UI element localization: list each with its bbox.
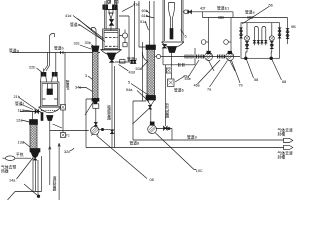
svg-text:61b: 61b [142, 14, 148, 18]
svg-text:22b: 22b [29, 66, 35, 70]
svg-text:管道9: 管道9 [187, 135, 197, 140]
svg-text:68: 68 [282, 80, 286, 84]
svg-text:升气管路: 升气管路 [165, 102, 170, 118]
svg-text:封槽: 封槽 [278, 132, 286, 137]
svg-text:32c: 32c [64, 150, 70, 154]
svg-text:管道a: 管道a [70, 22, 81, 27]
svg-text:58: 58 [254, 78, 258, 82]
svg-text:管道g: 管道g [9, 48, 19, 53]
svg-text:7c: 7c [66, 134, 70, 138]
svg-text:60b: 60b [142, 9, 148, 13]
svg-text:34c: 34c [75, 86, 81, 90]
svg-text:5: 5 [128, 81, 130, 85]
svg-text:3: 3 [85, 74, 87, 78]
svg-text:12a: 12a [16, 118, 23, 122]
svg-text:41e: 41e [133, 3, 139, 7]
svg-text:51a: 51a [140, 20, 147, 24]
svg-text:33c: 33c [74, 41, 80, 45]
svg-text:45c: 45c [183, 74, 189, 78]
svg-text:41d: 41d [65, 14, 71, 18]
svg-text:53a: 53a [136, 67, 143, 71]
svg-text:管道d: 管道d [127, 57, 137, 62]
svg-text:7a: 7a [207, 87, 212, 91]
svg-text:43d: 43d [129, 71, 135, 75]
svg-text:封槽: 封槽 [278, 155, 286, 160]
svg-text:21b: 21b [14, 95, 20, 99]
svg-text:热器: 热器 [1, 169, 9, 174]
svg-text:吸收管路: 吸收管路 [106, 105, 111, 121]
svg-text:管道b: 管道b [54, 46, 64, 51]
svg-text:14a: 14a [9, 179, 16, 183]
svg-text:13a: 13a [18, 140, 25, 144]
svg-text:7b: 7b [239, 83, 243, 87]
svg-text:08: 08 [150, 178, 154, 182]
svg-text:管道d: 管道d [65, 79, 70, 89]
svg-text:56: 56 [269, 4, 273, 8]
svg-text:平热: 平热 [16, 152, 24, 157]
svg-text:46e: 46e [194, 83, 200, 87]
svg-text:9B: 9B [291, 25, 296, 29]
svg-text:管道8: 管道8 [130, 141, 140, 146]
svg-text:11a: 11a [18, 108, 25, 112]
svg-text:管道6: 管道6 [174, 87, 184, 92]
svg-text:6: 6 [185, 34, 187, 38]
svg-text:管道f: 管道f [15, 101, 25, 106]
svg-text:管道e: 管道e [245, 10, 255, 15]
svg-text:管道E1: 管道E1 [217, 5, 229, 10]
svg-text:10C: 10C [196, 169, 203, 173]
svg-text:54a: 54a [126, 88, 133, 92]
svg-text:33b: 33b [85, 41, 91, 45]
svg-text:42f: 42f [200, 6, 206, 10]
svg-text:液封管路: 液封管路 [52, 175, 57, 191]
